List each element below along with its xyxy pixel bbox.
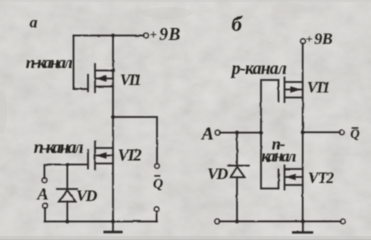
terminal +9V circle [301,39,306,44]
transistor VT2 channel [94,142,96,170]
svg-text:VT2: VT2 [118,146,142,165]
svg-text:VT1: VT1 [307,79,330,96]
transistor VT1 channel [94,64,96,92]
node: rail junction [111,34,114,37]
node: output tap junction [111,115,115,119]
transistor VT2 substrate stub + arrow [96,155,113,157]
ground symbol circuit b [302,221,304,232]
svg-text:9В: 9В [314,31,333,48]
transistor VT2 source stub [285,184,302,186]
svg-text:канал: канал [261,146,296,165]
svg-text:п-канал: п-канал [26,53,73,72]
terminal: input A bottom circle [43,203,48,208]
wire: supply bus down [302,44,304,222]
diode VD cathode bar [228,165,249,167]
transistor VT1 channel [284,78,286,103]
transistor VT2 gate bar [87,150,89,169]
faint scan smudges [141,7,193,19]
top edge shadow [0,0,371,2]
wire: gate bus [261,80,278,189]
wire: bottom rail circuit b [219,220,340,222]
wire: top rail +9V [74,35,144,37]
svg-text:9В: 9В [159,24,180,44]
svg-text:А: А [36,185,48,204]
wire: output bottom to rail [156,211,158,221]
wire: bottom rail circuit a [45,221,157,223]
node: VT1 drain junction [111,69,114,72]
svg-text:VD: VD [76,188,97,205]
svg-text:VT2: VT2 [308,170,334,187]
transistor VT2 source stub [96,163,113,165]
terminal: output circle [340,130,345,135]
transistor VT1 source stub [285,97,302,99]
wire: main vertical bus circuit a [112,36,114,222]
svg-text:VD: VD [207,166,228,183]
transistor VT1 drain stub [285,81,302,83]
node: ground rail junction [111,220,115,224]
svg-text:+: + [150,28,157,42]
transistor VT2 drain stub [96,147,113,149]
wire: input A bottom to rail [44,208,46,222]
diode VD lead to rail [236,177,238,221]
svg-text:п-канал: п-канал [34,137,84,157]
transistor VT2 drain stub [285,168,302,170]
wire: input A to gate bus [220,132,261,134]
transistor VT1 substrate stub + arrow (p-channel, points right) [285,89,302,91]
wire: VT1 gate lead from rail [74,36,88,90]
diode VD triangle [59,190,76,201]
terminal: output top circle [155,164,160,169]
node: VD rail junction [66,220,70,224]
node: ground rail junction [301,220,305,224]
transistor VT2 gate bar [278,170,280,189]
bottom edge shadow [0,236,371,240]
node: VD top junction [66,163,69,166]
transistor VT1 gate bar [87,75,89,92]
terminal: input A circle [215,130,220,135]
terminal: rail left circle [215,219,220,224]
transistor VT2 channel [284,166,286,190]
node: output junction [301,131,305,135]
diode VD cathode bar [57,188,77,190]
transistor VT2 substrate stub + arrow (n-channel, points left) [285,176,302,178]
terminal: input A top circle [42,178,47,183]
diode VD: lead from input wire [236,133,238,166]
wire: output to terminal [303,131,340,133]
node: VD rail junction [235,220,239,224]
transistor VT1 gate bar [278,80,280,102]
terminal: rail right circle [340,219,345,224]
wire: VT2 gate lead to input A [44,165,87,179]
svg-text:VT1: VT1 [120,72,142,89]
svg-text:р-канал: р-канал [230,58,287,78]
terminal: output bottom circle [154,207,159,212]
transistor VT1 drain stub [96,70,113,72]
ground symbol circuit a [112,222,114,232]
transistor VT1 source stub [96,86,113,88]
svg-text:А: А [201,123,214,143]
node: gate bus junction [259,131,263,135]
diode VD lead to rail [66,202,68,222]
wire: output tap to terminal [113,117,157,164]
node: VD branch junction [235,131,239,135]
svg-text:+: + [306,32,313,46]
transistor VT1 substrate stub + arrow [96,78,113,80]
terminal +9V circle [144,33,149,38]
svg-text:а: а [30,15,38,32]
diode VD triangle [230,167,244,178]
diode VD: lead from input wire [66,165,68,189]
svg-text:б: б [232,12,244,36]
svg-text:Q: Q [153,177,163,192]
